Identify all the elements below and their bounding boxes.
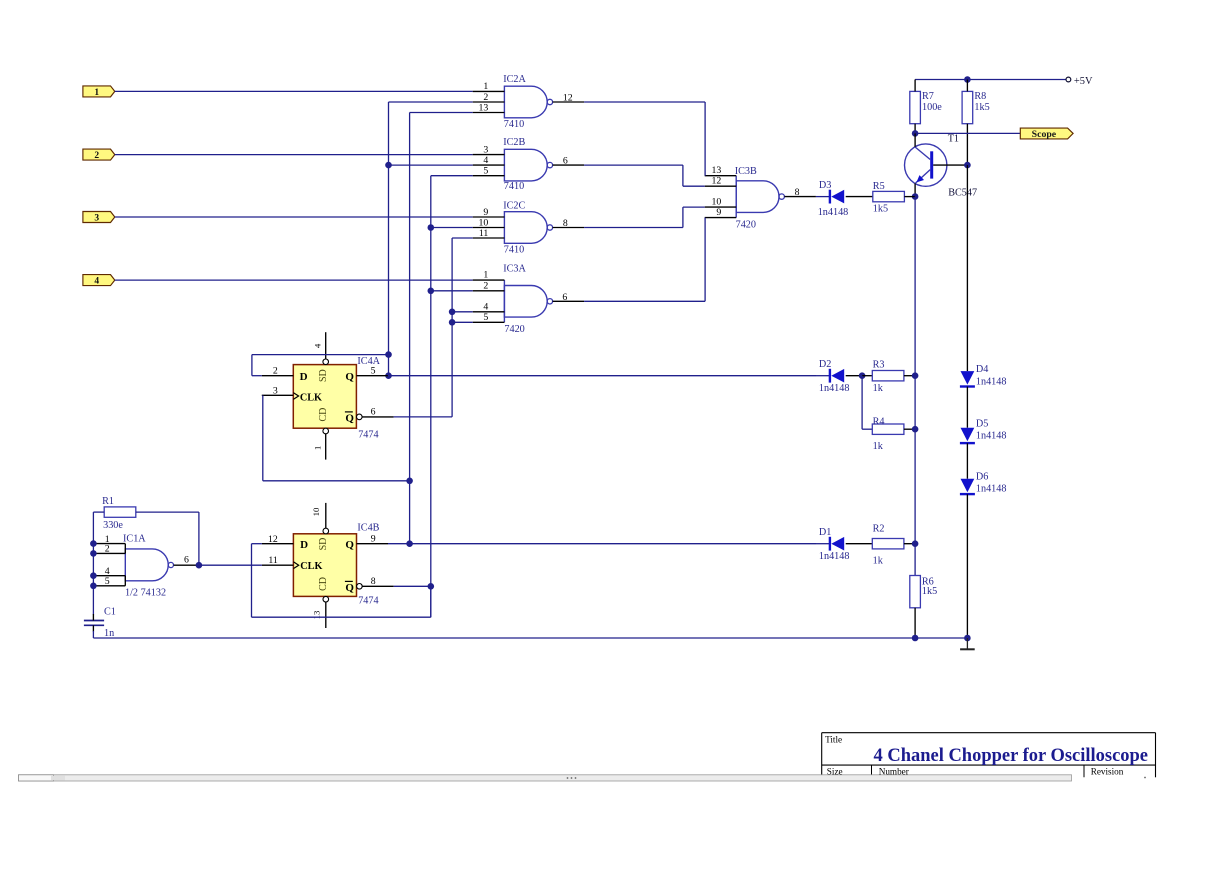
NAND gate IC1A (1/2 74132) [95,534,199,599]
wire Qbar right [394,416,453,418]
svg-text:6: 6 [371,407,376,418]
svg-text:Q: Q [345,371,354,383]
junction emitter/R5 [912,193,919,200]
D4 symbol [961,371,975,385]
wire emitter rail [914,197,916,576]
R8 body [962,91,973,123]
IC2A output pin 12 [553,101,585,103]
D1 symbol [829,537,831,551]
wire to IC3B.12 [683,185,705,187]
wire D2 to junction [846,375,862,377]
svg-text:1n4148: 1n4148 [819,551,850,562]
svg-text:IC2A: IC2A [503,74,526,85]
svg-text:2: 2 [483,281,488,292]
IC1A pin 4 [95,575,126,577]
wire to B1 [252,354,389,356]
svg-text:IC2C: IC2C [503,200,525,211]
IC2C pin 10 [473,227,505,229]
R7 body [910,91,921,123]
NAND gate IC2C (7410) [473,200,584,255]
NAND gate IC2A (7410) [473,74,584,130]
IC2B body [504,149,547,181]
svg-text:13: 13 [479,102,489,113]
svg-text:Q: Q [345,539,354,551]
D5 symbol [961,428,975,442]
svg-text:2: 2 [483,92,488,103]
svg-text:5: 5 [483,166,488,177]
wire B4 to IC2C.11 [452,237,473,239]
svg-text:1n4148: 1n4148 [976,376,1007,387]
capacitor C1 [84,607,116,640]
svg-text:9: 9 [483,207,488,218]
junction B3/IC4B Qbar [428,583,435,590]
ground stem [966,638,968,649]
IC3B pin 13 [705,175,737,177]
svg-text:R1: R1 [102,496,114,507]
IC3B output pin 8 [784,196,816,198]
svg-text:6: 6 [563,156,568,167]
svg-text:IC4B: IC4B [357,522,379,533]
wire D4 to D5 [966,387,968,428]
IC1A pin 4-5 tie bar [124,576,126,586]
wire B4 to IC3A.5 [452,321,473,323]
resistor R6 [910,576,937,639]
svg-text:9: 9 [716,207,721,218]
ground symbol [960,638,975,649]
IC4B Q pin 9 [357,543,389,545]
wire to D2 [816,375,830,377]
junction rail/pin5 [90,583,97,590]
svg-text:CLK: CLK [300,393,322,404]
svg-text:10: 10 [311,507,321,516]
svg-text:1: 1 [483,270,488,281]
junction R2/rail [912,540,919,547]
svg-text:13: 13 [712,165,722,176]
wire B2 vertical [409,113,411,544]
wire to D3 [816,196,830,198]
wire B3 to IC2B.5 [431,175,473,177]
wire R3 to rail [904,375,915,377]
svg-text:R3: R3 [873,359,885,370]
IC3A input bar [503,280,505,322]
svg-text:Q: Q [345,412,354,424]
D6 symbol [961,479,975,493]
svg-text:IC1A: IC1A [123,534,146,545]
wire +5V rail [915,79,1066,81]
svg-text:CD: CD [318,408,329,422]
flip-flop IC4A (7474) [262,332,394,459]
wire D1 to R2 [846,543,873,545]
R6 bottom pin [914,608,916,638]
wire B1 to IC2A.2 [389,101,473,103]
svg-text:7474: 7474 [358,595,378,606]
wire up [682,207,684,227]
NAND gate IC3B (7420, 4-input) [705,165,816,230]
diode D4 [960,364,1007,387]
junction B3/IC2C.10 [428,224,435,231]
svg-text:3: 3 [273,385,278,396]
IC2A pin 2 [473,101,505,103]
T1 collector diagonal [915,147,930,160]
svg-text:IC3B: IC3B [735,166,757,177]
svg-text:R2: R2 [873,524,885,535]
D2 symbol [829,369,831,383]
wire B1 to IC2B.4 [389,164,473,166]
svg-text:7410: 7410 [504,181,524,192]
svg-text:1n4148: 1n4148 [976,431,1007,442]
resistor R1 [102,496,136,531]
svg-text:7420: 7420 [504,324,524,335]
svg-text:11: 11 [268,555,278,566]
resistor R4 [872,417,904,453]
IC4B D pin 12 [262,543,294,545]
svg-text:C1: C1 [104,607,116,618]
svg-text:1k5: 1k5 [974,102,989,113]
wire CLK down [262,395,264,481]
junction B1/IC2B.4 [385,162,392,169]
svg-text:6: 6 [184,555,189,566]
T1 base pin [933,164,967,166]
svg-text:SD: SD [318,538,329,551]
svg-text:3: 3 [483,144,488,155]
IC1A pin 1-2 tie bar [124,544,126,554]
svg-text:D5: D5 [976,418,988,429]
wire D left [252,543,262,545]
junction R4/rail [912,426,919,433]
IC4B Qbar overline [345,580,353,582]
connector port 3 [83,212,115,223]
wire bottom rail [93,637,967,639]
junction B4/IC3A.5 [449,319,456,326]
junction B3/IC3A.2 [428,288,435,295]
R4 body [872,424,904,434]
svg-text:10: 10 [712,197,722,208]
svg-text:12: 12 [563,93,573,104]
svg-text:4: 4 [483,155,488,166]
diode D2 [819,359,850,394]
wire IC3A.6 right [584,300,705,302]
wire down [861,376,863,430]
svg-text:IC4A: IC4A [357,356,380,367]
junction R3/rail [912,372,919,379]
R7 top pin [914,80,916,92]
svg-text:IC3A: IC3A [503,263,526,274]
svg-text:3: 3 [94,213,99,223]
connector port 2 [83,149,115,160]
resistor R7 [910,80,942,134]
wire CLK right to B2 [263,480,410,482]
junction rail/pin4 [90,572,97,579]
IC4B CD pin 13 line [325,602,327,628]
diode D6 [960,471,1007,494]
IC3B body [736,181,779,213]
svg-text:1n4148: 1n4148 [819,383,850,394]
NAND gate IC3A (7420, 4-input) [473,263,584,335]
svg-text:12: 12 [268,534,278,545]
diode D5 [960,418,1007,443]
C1 bottom pin [92,625,94,631]
wire down [251,544,253,618]
R1 body [104,507,136,517]
IC2C pin 9 [473,216,505,218]
+5V terminal [1066,76,1093,87]
svg-text:1: 1 [312,446,322,450]
wire D5 to D6 [966,443,968,479]
wire to R4 [862,428,872,430]
IC4A SD pin 4 line [325,332,327,359]
svg-text:1n4148: 1n4148 [976,484,1007,495]
IC4A CD pin 1 line [325,434,327,460]
scrollbar dots [51,776,1146,780]
svg-text:D: D [300,539,308,551]
svg-text:1: 1 [94,88,99,98]
scrollbar thumb [19,775,54,781]
R8 top pin [966,80,968,92]
svg-text:R8: R8 [974,91,986,102]
junction D2/R3/R4 [859,372,866,379]
junction R6/bottom rail [912,635,919,642]
wire down to IC1A out [198,512,200,565]
T1 collector pin [914,133,916,147]
IC3A pin 1 [473,279,505,281]
svg-text:Q: Q [345,582,354,594]
IC3A body [504,286,547,318]
svg-text:SD: SD [318,369,329,382]
svg-text:Title: Title [825,735,842,745]
IC4A Qbar overline [345,411,353,413]
C1 top plate [84,620,104,622]
wire base to D4 [966,165,968,371]
flip-flop IC4B (7474) [262,503,394,628]
wire to D1 [816,543,830,545]
svg-text:11: 11 [479,228,489,239]
connector Scope [1020,128,1073,140]
T1 emitter diagonal [916,170,931,183]
NAND gate IC2B (7410) [473,137,584,192]
wire Qbar right [394,585,431,587]
IC2A pin 1 [473,90,505,92]
svg-text:12: 12 [712,176,722,187]
IC4B clock wedge [293,562,298,569]
svg-text:Scope: Scope [1032,129,1057,140]
wire R5 to emitter [904,196,915,198]
wire R1 right [136,511,199,513]
svg-text:+5V: +5V [1074,76,1093,87]
IC2C pin 11 [473,237,505,239]
svg-text:R4: R4 [873,417,885,428]
svg-text:5: 5 [105,576,110,587]
svg-text:4: 4 [483,302,488,313]
IC3B pin 9 [705,217,737,219]
svg-text:330e: 330e [103,520,123,531]
svg-text:D6: D6 [976,471,988,482]
wire B4 vertical [451,238,453,417]
svg-text:8: 8 [795,187,800,198]
title block frame [822,733,1156,778]
wire up [251,355,253,376]
svg-text:10: 10 [479,217,489,228]
wire to Scope [915,132,1020,134]
wire conn2 to IC2B pin3 [115,154,473,156]
wire R4 to rail [904,428,915,430]
IC1A pin 5 [95,585,126,587]
junction rail/pin1 [90,540,97,547]
wire D3 to R5 [846,196,873,198]
wire B1 vertical [388,102,390,376]
R7 bottom pin [914,124,916,134]
svg-text:7420: 7420 [736,220,756,231]
junction base/R8/diode chain [964,162,971,169]
svg-text:R5: R5 [873,181,885,192]
IC1A pin 2 [95,552,126,554]
resistor R3 [872,359,904,394]
svg-text:D2: D2 [819,359,831,370]
svg-text:BC547: BC547 [948,188,977,199]
wire D left [252,375,262,377]
IC4A clock wedge [293,393,298,400]
wire left rail down to C1 [92,512,94,614]
svg-text:4 Chanel Chopper for Oscillosc: 4 Chanel Chopper for Oscilloscope [874,745,1149,766]
svg-text:Revision: Revision [1091,767,1124,777]
svg-text:5: 5 [483,312,488,323]
IC2B output pin 6 [553,164,585,166]
wire conn1 to IC2A pin1 [115,90,473,92]
IC4B SD pin 10 line [325,503,327,528]
resistor R2 [872,524,904,567]
resistor R5 [873,181,905,214]
wire Q to D1 [388,543,816,545]
svg-text:1n4148: 1n4148 [818,207,849,218]
svg-text:CD: CD [318,577,329,591]
wire junction to R3 [862,375,872,377]
scrollbar track [19,775,1072,781]
junction IC1A out [196,562,203,569]
wire to IC4B CLK [199,564,262,566]
svg-text:CLK: CLK [300,561,322,572]
IC4B CLK pin 11 [262,564,294,566]
wire D6 to bottom rail [966,494,968,638]
junction B4/IC3A.4 [449,309,456,316]
IC3A pin 2 [473,290,505,292]
svg-text:4: 4 [94,277,99,287]
svg-text:T1: T1 [948,133,959,144]
ground bar [960,648,975,650]
svg-text:D1: D1 [819,527,831,538]
svg-text:1k: 1k [873,556,884,567]
wire right [252,616,431,618]
R3 body [872,371,904,381]
IC3B pin 12 [705,185,737,187]
svg-text:8: 8 [563,218,568,229]
wire up to IC3B.9 [704,218,706,302]
svg-text:9: 9 [371,534,376,545]
wire IC2C.8 right [584,227,683,229]
svg-text:4: 4 [312,343,322,348]
IC2B pin 5 [473,175,505,177]
svg-text:D: D [300,371,308,383]
junction rail/R8 [964,76,971,83]
wire B2 to IC2A.13 [410,112,473,114]
IC4A D pin 2 [262,375,294,377]
IC2C output pin 8 [553,227,585,229]
IC3B pin 10 [705,206,737,208]
wire IC2A.12 right [584,101,705,103]
svg-text:D4: D4 [976,364,988,375]
svg-text:2: 2 [273,366,278,377]
svg-text:13: 13 [312,610,322,619]
wire R1 left [93,511,104,513]
transistor T1 (BC547 NPN) [905,133,978,198]
wire to IC3B.10 [683,206,705,208]
svg-text:1: 1 [483,81,488,92]
IC2C body [504,212,547,244]
resistor R8 [962,80,990,166]
IC3A pin 4 [473,311,505,313]
IC2B pin 3 [473,154,505,156]
wire C1 to bottom rail [92,631,94,638]
svg-text:1k5: 1k5 [873,204,888,215]
svg-text:D3: D3 [819,180,831,191]
junction B1/IC4A.D loop [385,351,392,358]
IC4A CLK pin 3 [262,394,294,396]
svg-text:1k5: 1k5 [922,586,937,597]
T1 emitter pin [914,183,916,196]
junction R7/collector/scope [912,130,919,137]
C1 bottom plate [84,624,104,626]
svg-text:1/2 74132: 1/2 74132 [125,588,166,599]
IC4B Qbar pin 8 [362,585,394,587]
wire up to Qbar (part of B3) [430,586,432,617]
junction B1/IC4A.Q [385,372,392,379]
diode D1 [819,527,850,562]
svg-text:2: 2 [105,544,110,555]
IC4A Q pin 5 [356,375,388,377]
connector port 4 [83,275,115,286]
wire IC2B.6 right [584,164,683,166]
svg-text:7474: 7474 [358,430,378,441]
svg-text:7410: 7410 [504,244,524,255]
svg-text:6: 6 [562,292,567,303]
R6 body [910,576,921,608]
svg-text:IC2B: IC2B [503,137,525,148]
svg-text:5: 5 [371,366,376,377]
svg-text:8: 8 [371,576,376,587]
IC2A pin 13 [473,112,505,114]
svg-text:1k: 1k [873,441,884,452]
svg-text:1k: 1k [873,383,884,394]
IC3B input bar [735,176,737,218]
connector port 1 [83,86,115,97]
diode D3 [818,180,849,218]
svg-text:2: 2 [94,151,99,161]
IC2A body [504,86,547,118]
R5 body [873,191,905,201]
junction bottom rail/ground [964,635,971,642]
junction B2/IC4B Q [406,540,413,547]
R8 bottom pin [966,124,968,165]
wire R2 to rail [904,543,915,545]
D3 symbol [829,190,831,204]
wire B3 to IC2C.10 [431,227,473,229]
wire conn3 to IC2C pin9 [115,216,473,218]
IC3A pin 5 [473,321,505,323]
IC1A pin 1 [95,543,126,545]
IC3A output pin 6 [553,300,585,302]
IC2B pin 4 [473,164,505,166]
IC1A output pin 6 [174,564,199,566]
IC4A Qbar pin 6 [362,416,394,418]
wire down [682,165,684,186]
